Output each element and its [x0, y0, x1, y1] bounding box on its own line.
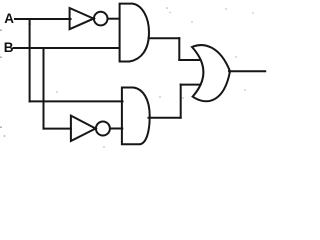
- node A (input label): [4, 11, 14, 26]
- junction: A branch tee: [29, 19, 31, 24]
- wire: B branch horizontal to bottom NOT gate: [44, 128, 72, 130]
- node B (input label): [4, 40, 14, 55]
- inverter (top NOT gate) triangle: [70, 8, 94, 29]
- wire: bottom AND output vertical step up: [180, 85, 182, 118]
- svg-text:A: A: [4, 11, 14, 26]
- wire: A input to top NOT gate: [15, 18, 71, 20]
- inverter (bottom NOT gate) bubble: [96, 122, 110, 136]
- wire: into OR gate bottom input: [181, 84, 201, 86]
- wire: bottom NOT output to bottom AND bottom input: [110, 128, 122, 130]
- wire: A branch horizontal to bottom AND top input: [30, 100, 123, 102]
- wire: top NOT output to top AND top input: [108, 18, 120, 20]
- inverter (top NOT gate) bubble: [94, 12, 108, 26]
- wire: OR gate output: [229, 70, 265, 72]
- wire: into OR gate top input: [179, 59, 200, 61]
- wire: B input to top AND bottom input: [14, 47, 120, 49]
- wire: bottom AND output horizontal: [149, 117, 181, 119]
- AND gate (top): [120, 4, 149, 62]
- inverter (bottom NOT gate) triangle: [71, 116, 96, 141]
- wire: A branch vertical down: [29, 24, 31, 101]
- wire: top AND output vertical step down: [178, 38, 180, 60]
- OR gate: [192, 45, 230, 101]
- wire: top AND output horizontal: [149, 37, 180, 39]
- svg-text:B: B: [4, 40, 14, 55]
- AND gate (bottom): [122, 88, 150, 145]
- wire: B branch vertical down: [43, 53, 45, 129]
- junction: B branch tee: [43, 48, 45, 53]
